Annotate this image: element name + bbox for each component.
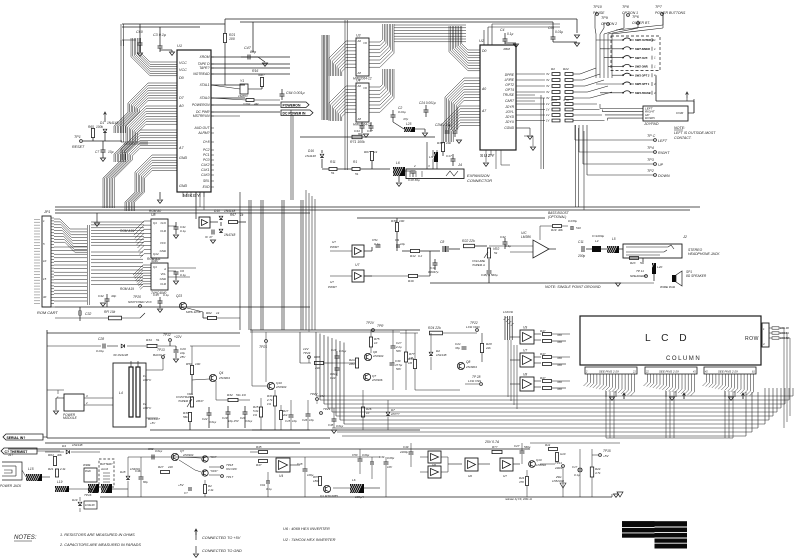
svg-text:U8: U8 [151, 213, 155, 217]
svg-text:U4: U4 [279, 474, 283, 478]
svg-text:0.0047µ: 0.0047µ [428, 270, 439, 274]
svg-text:GND: GND [179, 156, 188, 160]
svg-text:TP 11: TP 11 [636, 269, 644, 273]
svg-text:560µ: 560µ [524, 445, 531, 449]
svg-text:TP4: TP4 [647, 146, 654, 150]
svg-text:30: 30 [43, 295, 47, 299]
svg-text:"OFF": "OFF" [210, 469, 219, 473]
svg-text:CLK2: CLK2 [201, 163, 209, 167]
svg-text:TP7: TP7 [655, 5, 663, 9]
svg-text:TP1: TP1 [74, 135, 81, 139]
svg-text:C27: C27 [514, 444, 520, 448]
svg-text:C17: C17 [446, 154, 452, 158]
svg-text:ROM A19: ROM A19 [120, 287, 134, 291]
svg-text:LEFT IS OUTSIDE-MOST: LEFT IS OUTSIDE-MOST [674, 131, 716, 135]
svg-text:+5V: +5V [178, 483, 185, 487]
svg-text:U7: U7 [523, 349, 527, 353]
svg-text:10: 10 [374, 341, 378, 345]
svg-text:R1: R1 [353, 160, 357, 164]
svg-text:C9: C9 [395, 238, 399, 242]
svg-text:RFI 10k: RFI 10k [104, 310, 116, 314]
svg-text:R64: R64 [48, 453, 54, 457]
svg-text:C2M 1.33µ: C2M 1.33µ [435, 123, 451, 127]
svg-text:10µ: 10µ [108, 150, 114, 154]
svg-text:16MHz: 16MHz [238, 94, 248, 98]
svg-text:DC POWER IN: DC POWER IN [283, 111, 307, 115]
svg-text:2M4?: 2M4? [195, 399, 204, 403]
svg-text:CONNECTED TO +5V: CONNECTED TO +5V [202, 536, 241, 540]
svg-text:80p: 80p [250, 50, 256, 54]
svg-text:TP6: TP6 [632, 15, 640, 19]
svg-text:LEFT: LEFT [658, 139, 668, 143]
svg-text:0.68µ: 0.68µ [387, 456, 395, 460]
svg-text:L C D: L C D [645, 333, 691, 344]
svg-text:ROM A0: ROM A0 [149, 209, 161, 213]
svg-text:U?: U? [332, 240, 336, 244]
svg-text:L15: L15 [28, 467, 34, 471]
svg-text:R19: R19 [551, 228, 557, 232]
svg-text:A7: A7 [178, 146, 184, 150]
svg-text:VCC: VCC [179, 68, 187, 72]
svg-text:TP13: TP13 [157, 348, 165, 352]
svg-text:1N4148: 1N4148 [72, 443, 83, 447]
svg-text:Y?02: Y?02 [243, 102, 251, 106]
svg-text:C1?: C1? [572, 465, 578, 469]
svg-text:0.1µ: 0.1µ [180, 229, 186, 233]
svg-text:TP C: TP C [647, 134, 656, 138]
svg-text:A0: A0 [178, 104, 184, 108]
svg-text:C32: C32 [85, 312, 91, 316]
svg-text:"ON": "ON" [210, 455, 218, 459]
svg-text:SW7 OUT.: SW7 OUT. [635, 56, 648, 60]
svg-text:C14: C14 [330, 376, 336, 380]
svg-text:330: 330 [557, 333, 562, 337]
svg-text:ALRM?: ALRM? [197, 131, 209, 135]
svg-text:POWERON: POWERON [283, 103, 301, 107]
svg-text:2M4: 2M4 [348, 362, 355, 366]
svg-text:C24 0.001µ: C24 0.001µ [419, 101, 436, 105]
svg-text:L4: L4 [119, 391, 123, 395]
svg-text:C52: C52 [148, 447, 154, 451]
svg-text:C61: C61 [260, 483, 266, 487]
svg-text:1N4148: 1N4148 [85, 503, 95, 507]
svg-text:SW2 ONR.: SW2 ONR. [635, 65, 649, 69]
svg-text:2k4: 2k4 [282, 413, 288, 417]
svg-text:VD: VD [509, 310, 513, 314]
svg-text:U9: U9 [523, 326, 527, 330]
svg-text:1%: 1% [267, 402, 272, 406]
svg-text:200p: 200p [577, 254, 585, 258]
svg-text:U6: U6 [432, 463, 436, 467]
svg-text:D+8: D+8 [203, 140, 209, 144]
svg-text:10µ: 10µ [292, 419, 297, 423]
svg-text:LM386: LM386 [521, 235, 531, 239]
svg-text:L3: L3 [429, 155, 433, 159]
svg-text:2N3904: 2N3904 [275, 385, 287, 389]
svg-text:SUZY: SUZY [480, 153, 495, 159]
svg-text:8Ω SPEAKER: 8Ω SPEAKER [686, 274, 707, 278]
svg-text:R4?: R4? [540, 352, 546, 356]
svg-text:D4: D4 [62, 444, 66, 448]
svg-text:R21: R21 [48, 467, 54, 471]
svg-text:TP15: TP15 [603, 449, 611, 453]
svg-text:0.1µ: 0.1µ [507, 32, 513, 36]
svg-text:R24: R24 [551, 98, 557, 102]
svg-text:U?: U? [330, 280, 334, 284]
svg-text:R11: R11 [330, 160, 336, 164]
svg-text:0.1µ: 0.1µ [266, 487, 272, 491]
svg-text:U4: U4 [356, 79, 360, 83]
svg-text:0.01µ: 0.01µ [398, 110, 406, 114]
svg-text:TP10: TP10 [593, 5, 603, 9]
svg-text:9.2: 9.2 [418, 254, 422, 258]
svg-text:0.1µ: 0.1µ [163, 293, 169, 297]
svg-text:C64 0.001µ: C64 0.001µ [286, 91, 305, 95]
svg-text:R67: R67 [230, 213, 236, 217]
svg-text:C61: C61 [548, 26, 554, 30]
svg-text:AUD OUT: AUD OUT [194, 126, 211, 130]
svg-text:R4?: R4? [540, 376, 546, 380]
svg-text:CONNECTOR: CONNECTOR [467, 178, 492, 183]
svg-text:SW4 PAUSE: SW4 PAUSE [635, 91, 651, 95]
svg-text:SERIAL IN?: SERIAL IN? [7, 436, 26, 440]
svg-text:PAD: PAD [85, 469, 91, 473]
svg-text:R1k: R1k [545, 443, 551, 447]
svg-text:U3: U3 [356, 34, 360, 38]
svg-text:100µH: 100µH [355, 495, 365, 499]
svg-text:Q10: Q10 [536, 458, 542, 462]
svg-text:TP8: TP8 [622, 5, 630, 9]
svg-text:100°C: 100°C [143, 378, 152, 382]
svg-text:U2 : 74HC04 HEX INVERTER: U2 : 74HC04 HEX INVERTER [283, 537, 336, 542]
svg-text:21: 21 [632, 371, 636, 374]
svg-text:U6: U6 [468, 474, 472, 478]
svg-text:COLUMN: COLUMN [666, 356, 701, 362]
svg-text:A0: A0 [481, 87, 486, 91]
svg-text:40k?: 40k? [258, 73, 265, 77]
svg-text:HEADPHONE JACK: HEADPHONE JACK [688, 252, 720, 256]
svg-text:A8: A8 [357, 71, 362, 75]
svg-text:CONTACT.: CONTACT. [674, 136, 692, 140]
svg-text:SW3 OPT 2: SW3 OPT 2 [635, 73, 650, 77]
svg-text:0.01µ: 0.01µ [96, 349, 104, 353]
svg-text:POWER BUTTONS: POWER BUTTONS [655, 11, 686, 15]
svg-text:1%: 1% [253, 413, 258, 417]
svg-text:EXD: EXD [203, 185, 210, 189]
svg-text:330: 330 [557, 363, 562, 367]
svg-text:JOYD: JOYD [504, 115, 514, 119]
svg-text:30 1N4148: 30 1N4148 [113, 353, 128, 357]
svg-text:MSTRRUN: MSTRRUN [193, 114, 210, 118]
svg-text:100: 100 [229, 37, 235, 41]
svg-text:LCD VSS: LCD VSS [468, 379, 482, 383]
svg-text:L4: L4 [595, 239, 599, 243]
svg-text:Y1: Y1 [240, 79, 244, 83]
svg-text:1M: 1M [408, 361, 413, 365]
svg-text:1N4748: 1N4748 [224, 233, 235, 237]
svg-text:VCC: VCC [160, 241, 167, 245]
svg-text:100: 100 [399, 219, 404, 223]
svg-text:redrawn by CK, 2001-11: redrawn by CK, 2001-11 [505, 498, 533, 501]
svg-text:A8: A8 [357, 117, 362, 121]
svg-text:ROM A11: ROM A11 [147, 257, 161, 261]
svg-text:R32: R32 [227, 393, 233, 397]
svg-text:JOYR: JOYR [504, 105, 514, 109]
svg-text:PWM?: PWM? [330, 245, 339, 249]
svg-text:JOYL: JOYL [505, 110, 514, 114]
svg-text:CART: CART [505, 99, 515, 103]
svg-text:UP: UP [658, 163, 664, 167]
svg-text:+5V: +5V [603, 454, 610, 458]
svg-text:10: 10 [366, 411, 370, 415]
svg-text:CLR: CLR [160, 229, 166, 233]
svg-text:L19: L19 [57, 480, 63, 484]
svg-text:DOWN: DOWN [658, 174, 670, 178]
svg-text:VR1: VR1 [187, 392, 193, 396]
svg-text:OPT2: OPT2 [505, 83, 514, 87]
svg-text:ROM A10: ROM A10 [120, 229, 134, 233]
svg-text:25V: 25V [179, 355, 186, 359]
svg-text:BATTERY: BATTERY [100, 462, 114, 466]
svg-text:Q8: Q8 [466, 360, 470, 364]
svg-text:SW5 OPT 1: SW5 OPT 1 [635, 82, 650, 86]
svg-text:C34: C34 [379, 455, 385, 459]
svg-text:330: 330 [557, 340, 562, 344]
svg-text:10µ 25V: 10µ 25V [228, 419, 240, 423]
svg-text:D1: D1 [100, 121, 104, 125]
svg-text:+22V: +22V [174, 335, 182, 339]
svg-text:OPTION 2: OPTION 2 [601, 22, 617, 26]
svg-text:R22 22k: R22 22k [462, 239, 475, 243]
svg-text:L5: L5 [612, 237, 616, 241]
svg-text:R16: R16 [408, 279, 414, 283]
svg-text:330: 330 [557, 380, 562, 384]
svg-text:51: 51 [156, 338, 160, 342]
svg-text:5.6k: 5.6k [253, 409, 259, 413]
svg-text:LCD R1: LCD R1 [780, 332, 790, 335]
svg-text:LCD R2: LCD R2 [780, 337, 790, 340]
svg-text:B+: B+ [94, 490, 98, 494]
svg-text:R2: R2 [551, 67, 555, 71]
svg-text:TAPE?: TAPE? [199, 66, 209, 70]
svg-text:C26: C26 [302, 418, 308, 422]
svg-text:22DN: 22DN [554, 466, 563, 470]
svg-text:R67: R67 [364, 150, 370, 154]
svg-text:A0: A0 [357, 84, 362, 88]
svg-text:22k: 22k [485, 346, 491, 350]
svg-text:VCC: VCC [179, 61, 187, 65]
svg-text:25V 0.7A: 25V 0.7A [484, 440, 500, 444]
svg-text:51k 1%: 51k 1% [236, 393, 246, 397]
svg-text:10: 10 [43, 259, 47, 263]
svg-text:NOTE:: NOTE: [674, 126, 685, 130]
svg-text:1N4148: 1N4148 [107, 121, 118, 125]
svg-text:L6: L6 [352, 478, 356, 482]
svg-text:J2: J2 [682, 235, 687, 239]
svg-text:2N???: 2N??? [390, 412, 400, 416]
svg-text:C48(?) 560µ: C48(?) 560µ [481, 273, 498, 277]
svg-text:LCD VDD: LCD VDD [466, 325, 480, 329]
svg-text:10µ: 10µ [400, 242, 405, 246]
svg-text:CGND: CGND [504, 126, 514, 130]
svg-text:TPR: TPR [377, 324, 384, 328]
svg-text:Q1 MTD3055: Q1 MTD3055 [320, 494, 338, 498]
svg-text:L20: L20 [657, 265, 662, 269]
svg-text:22: 22 [645, 371, 649, 374]
svg-text:1N5816: 1N5816 [536, 463, 546, 467]
svg-text:0.01µ: 0.01µ [555, 30, 563, 34]
svg-text:R27: R27 [158, 465, 164, 469]
svg-text:TP24: TP24 [303, 351, 311, 355]
svg-text:100: 100 [195, 362, 200, 366]
svg-text:TAPER B: TAPER B [178, 399, 191, 403]
svg-text:2. CAPACITORS ARE MEASURED: 2. CAPACITORS ARE MEASURED IN FARADS [59, 543, 141, 547]
svg-text:40k: 40k [57, 453, 62, 457]
svg-text:0.01µ: 0.01µ [336, 424, 344, 428]
svg-text:0.033µ: 0.033µ [568, 219, 577, 223]
svg-text:NOTE: SINGLE POINT GROUND: NOTE: SINGLE POINT GROUND [545, 285, 601, 289]
svg-text:R1?: R1? [283, 409, 289, 413]
svg-text:0.01µ: 0.01µ [245, 419, 253, 423]
svg-text:Q1: Q1 [153, 265, 157, 269]
svg-text:R6M: R6M [503, 47, 510, 51]
svg-text:2.4k: 2.4k [207, 488, 214, 492]
svg-text:220: 220 [167, 465, 173, 469]
svg-text:J1?: J1? [7, 453, 13, 457]
svg-text:R30: R30 [391, 219, 397, 223]
svg-text:1N4148: 1N4148 [305, 154, 316, 158]
svg-text:PC1: PC1 [203, 153, 210, 157]
svg-text:0.1µ: 0.1µ [574, 473, 580, 477]
svg-text:15: 15 [43, 277, 47, 281]
svg-text:A0: A0 [357, 39, 362, 43]
svg-text:RIGHT: RIGHT [658, 151, 670, 155]
svg-text:R23: R23 [630, 261, 636, 265]
svg-text:0.66µ: 0.66µ [362, 453, 370, 457]
svg-text:A: A [163, 267, 166, 271]
svg-text:2N3904: 2N3904 [218, 376, 230, 380]
svg-text:DPRE: DPRE [505, 73, 515, 77]
svg-text:C46: C46 [135, 469, 141, 473]
svg-text:4.7k: 4.7k [595, 471, 601, 475]
svg-text:R62: R62 [206, 311, 212, 315]
svg-text:C11: C11 [578, 240, 584, 244]
svg-text:510: 510 [576, 226, 581, 230]
svg-text:C7: C7 [95, 150, 99, 154]
svg-text:C42: C42 [98, 294, 104, 298]
svg-text:TP3: TP3 [647, 158, 655, 162]
svg-text:TAPER A: TAPER A [472, 263, 485, 267]
svg-text:JOYPAD: JOYPAD [643, 122, 659, 126]
svg-text:2N3904: 2N3904 [372, 354, 384, 358]
svg-text:(OPTIONAL): (OPTIONAL) [548, 215, 566, 219]
svg-text:51: 51 [355, 172, 359, 176]
svg-text:OUTER BT.: OUTER BT. [632, 21, 650, 25]
svg-text:C3 0.1µ: C3 0.1µ [153, 33, 166, 37]
svg-text:TP9: TP9 [601, 16, 608, 20]
svg-text:51: 51 [331, 171, 335, 175]
svg-text:100°C: 100°C [143, 406, 152, 410]
svg-text:C28: C28 [98, 337, 104, 341]
svg-text:C15: C15 [285, 419, 291, 423]
svg-text:XTAL1: XTAL1 [199, 83, 210, 87]
svg-text:U?: U? [503, 474, 507, 478]
svg-text:MIKEY: MIKEY [183, 193, 201, 199]
svg-text:Q12: Q12 [153, 252, 159, 256]
svg-text:NOTES:: NOTES: [14, 535, 37, 541]
svg-text:80µ: 80µ [143, 480, 148, 484]
svg-text:JOYU: JOYU [504, 120, 514, 124]
svg-text:ON-OFF: ON-OFF [226, 467, 237, 471]
svg-text:C45: C45 [153, 293, 159, 297]
svg-text:SPEAKER?: SPEAKER? [630, 274, 647, 278]
svg-text:POWERON: POWERON [192, 103, 210, 107]
svg-text:MODULE: MODULE [63, 416, 78, 420]
svg-text:R12: R12 [410, 254, 416, 258]
svg-text:TP2V: TP2V [310, 392, 318, 396]
svg-text:LFIRE: LFIRE [505, 78, 515, 82]
svg-text:D16: D16 [308, 149, 314, 153]
svg-text:DOWN: DOWN [645, 116, 656, 120]
svg-text:JP1: JP1 [43, 210, 50, 214]
svg-text:33µ: 33µ [455, 346, 460, 350]
svg-text:0.01µ: 0.01µ [209, 420, 217, 424]
svg-text:GND: GND [179, 184, 188, 188]
svg-text:4M: 4M [254, 102, 259, 106]
svg-text:TRUSE: TRUSE [503, 93, 515, 97]
svg-text:1N5231B: 1N5231B [552, 479, 564, 483]
svg-text:Q23: Q23 [176, 294, 182, 298]
svg-text:SEE PINS 2-29: SEE PINS 2-29 [659, 370, 679, 374]
svg-text:24k: 24k [314, 366, 320, 370]
svg-text:POWER JACK: POWER JACK [0, 484, 22, 488]
svg-text:LCD: LCD [503, 310, 509, 314]
svg-text:U8: U8 [523, 373, 527, 377]
svg-text:D0: D0 [482, 49, 486, 53]
svg-text:1k: 1k [216, 311, 220, 315]
svg-text:TP12: TP12 [163, 333, 171, 337]
svg-text:330: 330 [557, 387, 562, 391]
svg-text:L25: L25 [406, 122, 412, 126]
svg-text:CLK0: CLK0 [201, 173, 209, 177]
svg-text:COM: COM [676, 111, 684, 115]
svg-text:Q4: Q4 [219, 371, 223, 375]
svg-text:SW6 OUTER B: SW6 OUTER B [635, 38, 654, 42]
svg-text:2.4k: 2.4k [59, 467, 66, 471]
svg-text:TP2V: TP2V [366, 321, 375, 325]
svg-text:C49: C49 [403, 445, 409, 449]
svg-text:40k: 40k [558, 228, 563, 232]
svg-text:4.7k: 4.7k [563, 98, 569, 102]
svg-text:R??: R?? [492, 445, 498, 449]
svg-text:0.01µ: 0.01µ [155, 449, 163, 453]
svg-text:R34: R34 [146, 338, 152, 342]
svg-text:Q1: Q1 [153, 221, 157, 225]
svg-text:SW7 INNER: SW7 INNER [635, 47, 650, 51]
svg-text:PC2: PC2 [203, 148, 210, 152]
svg-text:R4?: R4? [540, 329, 546, 333]
svg-text:XROM: XROM [199, 55, 210, 59]
svg-text:U6 : 4069 HEX INVERTER: U6 : 4069 HEX INVERTER [283, 526, 330, 531]
svg-text:0.1µ: 0.1µ [374, 242, 380, 246]
svg-text:ROW: ROW [745, 336, 759, 342]
svg-text:GND: GND [160, 277, 166, 281]
svg-text:2N3906: 2N3906 [371, 378, 383, 382]
svg-text:CLR: CLR [160, 282, 166, 286]
svg-text:R68: R68 [314, 355, 320, 359]
svg-text:BACKLIT: BACKLIT [153, 353, 166, 357]
svg-text:10µ: 10µ [309, 418, 314, 422]
